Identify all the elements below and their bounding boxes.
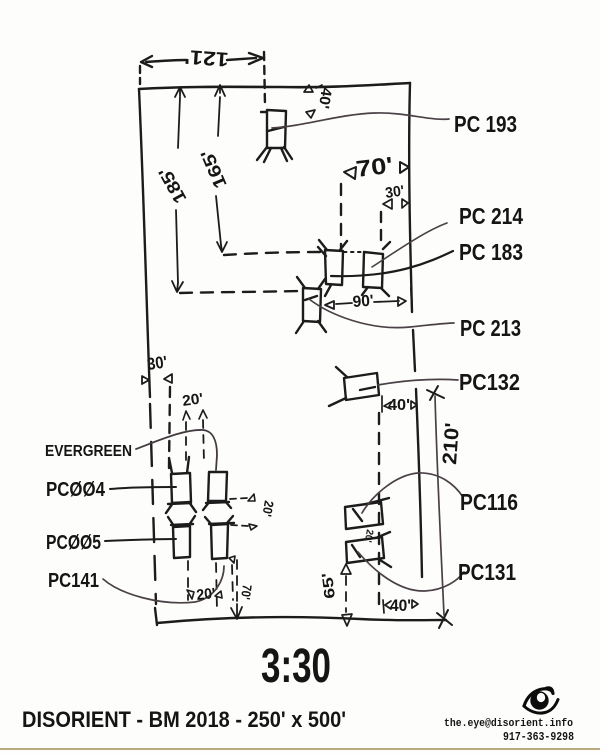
dimension 185' arrow top — [175, 87, 185, 97]
container PC183 — [363, 252, 383, 288]
svg-text:PC141: PC141 — [48, 570, 99, 592]
svg-text:20': 20' — [196, 585, 217, 604]
dimension 40' top arrows — [304, 85, 322, 118]
container column B top (EVERGREEN) — [208, 472, 227, 501]
svg-text:PC 183: PC 183 — [459, 239, 523, 265]
svg-text:the.eye@disorient.info: the.eye@disorient.info — [444, 718, 573, 730]
dimension 121' arrow left — [141, 56, 152, 67]
dimension 30' small arrows — [383, 199, 408, 209]
svg-text:70': 70' — [354, 152, 394, 182]
container PC132 legs — [329, 367, 375, 406]
label PC004 leader — [110, 487, 176, 489]
svg-text:PCØØ4: PCØØ4 — [46, 479, 106, 501]
svg-text:PCØØ5: PCØØ5 — [46, 532, 101, 554]
dimension 121' left extension dashed — [139, 66, 141, 84]
svg-text:40': 40' — [390, 596, 411, 615]
dimension 30' left arrows — [142, 374, 172, 384]
svg-text:20': 20' — [181, 390, 204, 410]
dimension 70' bottom arrow — [231, 604, 242, 619]
dimension 70' bottom dashed line — [236, 560, 238, 604]
dimension 210' top X tick — [427, 386, 444, 400]
dimension 90' line right — [374, 297, 406, 306]
label EVERGREEN leader — [136, 430, 217, 470]
dimension 20' upper dashed lines — [186, 420, 204, 466]
container column A bottom (PC005) — [173, 526, 190, 558]
svg-text:20': 20' — [362, 528, 375, 543]
leader PC193 — [272, 113, 449, 128]
svg-text:3:30: 3:30 — [261, 640, 331, 693]
svg-text:70': 70' — [238, 584, 255, 601]
dimension 20' right arrows — [248, 494, 257, 530]
svg-text:165': 165' — [197, 147, 231, 192]
dimension 165' arrow top — [215, 85, 225, 96]
site outline left edge — [139, 89, 150, 397]
container column A bottom legs — [168, 516, 195, 526]
site outline bottom edge — [157, 617, 446, 623]
container PC183 legs — [362, 242, 390, 296]
label PC141 leader — [103, 566, 224, 603]
dimension 121' arrow right — [249, 53, 263, 64]
dimension 165' line — [216, 97, 221, 245]
leader PC183 (to left box) — [331, 251, 453, 276]
dimension 90' right tick — [411, 288, 412, 308]
dashed line 185' to PC213 — [180, 291, 299, 293]
container PC214 — [325, 250, 343, 285]
dimension 65' dashed line — [345, 576, 347, 612]
svg-text:65': 65' — [319, 572, 339, 600]
site outline right edge upper — [409, 83, 412, 312]
svg-text:40': 40' — [315, 86, 335, 109]
svg-text:PC 214: PC 214 — [459, 203, 523, 229]
svg-text:917-363-9298: 917-363-9298 — [503, 730, 574, 744]
dimension 65' top arrow — [341, 564, 351, 574]
label PC005 leader — [105, 539, 176, 541]
svg-text:90': 90' — [352, 293, 374, 311]
dimension 20' upper arrows — [183, 410, 207, 420]
dimension 210' bottom X tick — [437, 610, 452, 628]
dashed line 40' left extension — [378, 413, 380, 610]
dimension 121' line right — [227, 58, 256, 60]
svg-text:EVERGREEN: EVERGREEN — [45, 443, 132, 460]
container column A top (PC004) — [171, 473, 191, 503]
container column B bottom legs — [205, 516, 234, 524]
svg-text:121': 121' — [184, 45, 229, 70]
svg-text:30': 30' — [146, 352, 168, 374]
container PC193 — [261, 110, 286, 148]
site outline bottom left corner — [155, 608, 157, 625]
svg-text:DISORIENT - BM 2018 - 250' x 5: DISORIENT - BM 2018 - 250' x 500' — [22, 707, 346, 732]
site outline top edge — [139, 83, 410, 89]
container column A top legs — [166, 457, 196, 513]
container PC213 — [303, 288, 321, 322]
dimension 40' bottom tick and arrows — [383, 600, 418, 613]
container column A lower dashed — [187, 561, 189, 600]
svg-text:PC 213: PC 213 — [460, 315, 521, 341]
container PC193 legs — [257, 147, 292, 162]
svg-text:40': 40' — [388, 397, 410, 414]
container PC213 legs — [296, 277, 326, 333]
leader PC132 — [378, 379, 458, 385]
site outline right edge middle segment — [413, 330, 415, 371]
dimension 165' arrow bottom — [217, 242, 227, 252]
dimension 210' line — [435, 396, 444, 615]
dimension 30' dashed line — [380, 212, 382, 248]
container PC214 legs — [318, 240, 347, 296]
site outline right edge lower — [416, 389, 422, 577]
dotted line PC214 to PC183 — [344, 251, 364, 253]
dimension 121' line left — [146, 60, 186, 62]
container PC132 — [344, 373, 379, 400]
dimension 185' line — [176, 97, 180, 283]
scanner edge bottom — [0, 748, 600, 750]
dimension 40' mid tick and arrows — [382, 396, 417, 412]
svg-text:210': 210' — [439, 422, 464, 465]
container column B bottom — [211, 524, 228, 559]
leader PC116 — [362, 473, 463, 513]
container PC116 leg — [353, 498, 389, 521]
svg-text:PC132: PC132 — [459, 369, 520, 395]
svg-text:PC116: PC116 — [460, 489, 518, 515]
svg-text:PC131: PC131 — [458, 559, 516, 585]
container PC131 legs — [352, 532, 391, 567]
dimension 185' arrow bottom — [172, 281, 183, 292]
container PC116 — [345, 502, 383, 529]
dimension 20' right dashes — [230, 498, 248, 526]
dimension 121' right extension dashed — [264, 52, 265, 106]
svg-text:185': 185' — [155, 164, 191, 207]
leader PC131 — [358, 552, 464, 591]
dimension 70' arrow left — [344, 167, 356, 179]
dimension 20' bottom arrows — [187, 590, 222, 599]
dimension 30' left dashed line — [169, 387, 170, 468]
dashed line 165' to PC214 — [224, 252, 322, 255]
container column B lower dashed — [216, 563, 233, 610]
container column B top legs — [203, 501, 231, 510]
dimension 70' arrow right — [400, 162, 409, 173]
site outline left edge dashed lower — [150, 404, 156, 604]
dimension 90' arrow left — [325, 301, 352, 309]
svg-text:30': 30' — [384, 182, 405, 201]
leader PC213 — [309, 299, 454, 328]
container PC131 — [346, 537, 384, 563]
svg-text:20': 20' — [259, 499, 277, 517]
container column B bottom right arrow — [229, 556, 235, 563]
svg-text:PC 193: PC 193 — [454, 111, 517, 137]
leader PC214 (to right box) — [372, 223, 447, 267]
dimension 65' bottom arrow — [342, 614, 352, 626]
eye logo — [524, 688, 558, 713]
dimension 70' dashed line left — [340, 184, 342, 250]
